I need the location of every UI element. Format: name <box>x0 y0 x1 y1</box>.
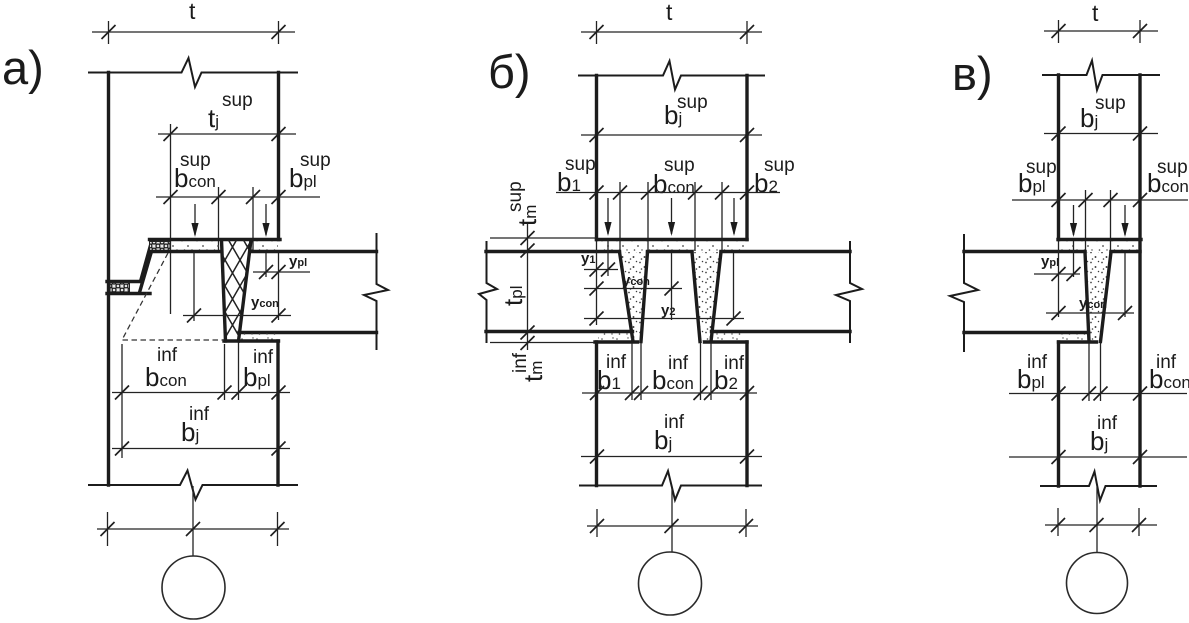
dimension ypl (fig v) line <box>1034 273 1080 275</box>
extension line x=170.5 (fig a) <box>170 124 172 314</box>
svg-text:inf: inf <box>253 347 274 368</box>
svg-text:tpl: tpl <box>498 286 528 306</box>
svg-text:sup: sup <box>764 155 795 176</box>
dimension bpl/bcon inf (fig v) line <box>1009 393 1187 395</box>
dimension bj inf (fig v) line <box>1009 456 1187 458</box>
dimension bj sup (fig b) line <box>581 134 762 136</box>
thickness dim ticks (fig b) <box>521 231 535 350</box>
svg-text:sup: sup <box>1095 93 1126 114</box>
label tpl rotated (fig b) <box>498 286 528 306</box>
mortar shim block B (fig a) <box>110 283 130 293</box>
svg-text:а): а) <box>2 41 44 94</box>
wall top break line (fig v) <box>1042 61 1160 91</box>
dimension t (fig a) extension lines <box>109 21 279 44</box>
wall bottom break line (fig a) <box>88 471 298 500</box>
axis center line (fig v) <box>1096 487 1098 553</box>
svg-text:ypl: ypl <box>289 253 307 270</box>
left slab bottom line (fig v) <box>964 331 1089 334</box>
key left side (fig v) <box>1085 252 1089 342</box>
svg-text:t: t <box>1092 0 1099 26</box>
joint top line (fig a) <box>150 238 281 241</box>
lower wall right edge (fig b) <box>745 342 748 486</box>
dimension t (fig a) line <box>92 31 295 33</box>
dimension b1/bcon/b2 sup (fig b) line <box>556 192 780 194</box>
dimension b1/bcon/b2 inf (fig b) line <box>582 392 757 394</box>
upper wall right edge (fig b) <box>745 76 748 240</box>
left slab break edge (fig b) <box>479 242 497 342</box>
right key left side (fig b) <box>692 252 700 342</box>
dashed diagonal (fig a) <box>123 253 169 339</box>
extension lines key tips (fig b) <box>632 343 711 400</box>
axis dimension (fig a) line <box>97 528 289 530</box>
mortar stipple band top (fig b) <box>598 242 746 252</box>
extension x=194 (fig a) <box>193 252 195 321</box>
upper wall notch ledge (fig a) <box>107 280 141 283</box>
wall bottom break line (fig b) <box>579 471 762 500</box>
left slab top line (fig v) <box>964 250 1085 253</box>
lower wall left edge (fig v) <box>1057 342 1060 486</box>
dimension bpl/bcon sup (fig v) line <box>1012 199 1188 201</box>
dimension bj inf (fig a) line <box>112 448 290 450</box>
dimension tj sup (fig a) ticks <box>164 127 286 141</box>
tongue top line (fig b) <box>648 250 693 253</box>
wall right edge (fig v) <box>1138 75 1141 486</box>
left slab bottom line (fig b) <box>486 330 633 333</box>
svg-text:y2: y2 <box>661 302 675 319</box>
mortar stipple band bottom-right (fig b) <box>712 333 747 341</box>
svg-text:inf: inf <box>606 352 627 373</box>
force arrow right (fig a) <box>265 204 267 235</box>
label tm sup rotated (fig b) <box>505 181 542 226</box>
left slab top line (fig b) <box>486 250 620 253</box>
upper wall right edge (fig a) <box>277 73 280 240</box>
extension lines key corners (fig b) <box>620 182 722 251</box>
dimension t (fig a) ticks <box>102 25 286 39</box>
upper wall left edge (fig b) <box>595 76 598 240</box>
force arrow left (fig v) <box>1073 205 1075 235</box>
svg-text:inf: inf <box>157 345 178 366</box>
svg-text:inf: inf <box>664 412 685 433</box>
right key stipple (fig b) <box>692 252 721 341</box>
svg-text:б): б) <box>488 45 531 98</box>
dimension bcon/bpl sup (fig a) ticks <box>164 190 286 204</box>
concrete key right side (fig a) <box>239 240 252 341</box>
lower wall right edge (fig a) <box>276 341 279 485</box>
axis dimension extensions (fig a) <box>108 512 278 546</box>
upper wall left edge (fig v) <box>1057 75 1060 240</box>
right key right side (fig b) <box>711 252 721 342</box>
svg-text:sup: sup <box>222 90 253 111</box>
joint bottom line (fig v) <box>1059 340 1097 343</box>
svg-text:t: t <box>666 0 673 25</box>
svg-text:sup: sup <box>677 92 708 113</box>
svg-text:ypl: ypl <box>1041 253 1059 270</box>
dimension bcon/bpl inf (fig a) line <box>112 392 290 394</box>
mortar stipple band top-left (fig a) <box>170 242 222 252</box>
svg-text:inf: inf <box>1027 352 1048 373</box>
left key left side (fig b) <box>620 252 634 342</box>
force arrow left (fig a) <box>194 204 196 235</box>
dimension bj sup (fig v) line <box>1044 133 1158 135</box>
axis circle (fig v) <box>1067 553 1128 614</box>
dimension t (fig v) line <box>1044 30 1158 32</box>
dimension tj sup (fig a) line <box>158 133 296 135</box>
upper wall left edge (fig a) <box>107 73 110 486</box>
dimension t (fig b) line <box>581 31 762 33</box>
joint bottom line left (fig b) <box>595 340 638 343</box>
mortar stipple band bottom (fig v) <box>1059 334 1089 341</box>
mortar stipple band bottom (fig a) <box>239 334 278 341</box>
tm inf extension (fig b) <box>490 342 594 344</box>
extension lines key tips (fig v) <box>1089 343 1101 401</box>
dimension bj inf (fig b) line <box>581 456 762 458</box>
dimension y2 (fig b) line <box>584 318 744 320</box>
dimension y1 (fig b) line <box>584 269 618 271</box>
axis dimension extensions (fig v) <box>1058 508 1139 536</box>
force arrow 1 (fig b) <box>607 198 609 234</box>
lower ledge line (fig a) <box>107 292 150 295</box>
svg-text:sup: sup <box>1026 157 1057 178</box>
wall top break line (fig a) <box>88 58 298 87</box>
axis dimension extensions (fig b) <box>597 509 746 537</box>
svg-text:sup: sup <box>505 181 526 212</box>
left slab break edge (fig v) <box>950 235 978 351</box>
extension lines key corners (fig v) <box>1086 190 1111 251</box>
joint bottom line (fig a) <box>224 339 279 342</box>
svg-text:sup: sup <box>1157 157 1188 178</box>
extension lines x=218.5 x=253 (fig a) <box>219 187 254 250</box>
wall bottom break line (fig v) <box>1040 472 1157 501</box>
axis dimension (fig v) line <box>1045 524 1157 526</box>
key stipple (fig v) <box>1085 252 1111 341</box>
extension lines for inf dims (fig a) <box>122 342 239 458</box>
dashed horizontal (fig a) <box>123 339 225 341</box>
axis circle (fig b) <box>639 552 702 615</box>
extension lines y-dims (fig b) <box>597 240 734 325</box>
left slab end slant (fig a) <box>140 253 152 293</box>
axis dimension (fig b) line <box>587 525 758 527</box>
right slab top line (fig b) <box>721 250 850 253</box>
upper wall notch slant (fig a) <box>141 240 153 282</box>
force arrow 3 (fig b) <box>733 198 735 234</box>
mortar stipple band top-right (fig a) <box>251 242 278 252</box>
left slab top line (fig a) <box>150 250 221 253</box>
left key right side (fig b) <box>641 252 648 342</box>
right slab bottom line (fig b) <box>712 330 851 333</box>
svg-text:в): в) <box>952 47 993 100</box>
svg-text:inf: inf <box>189 404 210 425</box>
extension x=278.5 below wall (fig a) <box>278 253 280 320</box>
concrete key crosshatch (fig a) <box>222 240 252 341</box>
svg-text:inf: inf <box>510 352 531 373</box>
svg-text:tj: tj <box>208 103 219 133</box>
svg-text:inf: inf <box>724 353 745 374</box>
key right side (fig v) <box>1101 252 1112 342</box>
right slab bottom line (fig a) <box>239 331 377 334</box>
concrete key left side (fig a) <box>222 240 226 341</box>
axis center line (fig a) <box>192 486 194 556</box>
force arrow right (fig v) <box>1124 205 1126 235</box>
svg-text:sup: sup <box>664 155 695 176</box>
tm sup extension (fig b) <box>490 237 596 239</box>
dimension ycon (fig b) line <box>584 288 682 290</box>
left key stipple (fig b) <box>620 252 648 341</box>
mortar stipple band top (fig v) <box>1059 242 1140 252</box>
lower wall left edge (fig b) <box>595 342 598 486</box>
right slab top line (fig a) <box>251 250 377 253</box>
mortar shim block A (fig a) <box>150 242 171 252</box>
wall bottom line (fig v) <box>1058 238 1141 241</box>
dimension bcon/bpl sup (fig a) line <box>156 196 320 198</box>
axis center line (fig b) <box>671 487 673 552</box>
label tm inf rotated (fig b) <box>510 352 548 382</box>
svg-text:ycon: ycon <box>251 294 279 311</box>
svg-text:inf: inf <box>1097 413 1118 434</box>
mortar stipple band bottom-left (fig b) <box>598 333 632 341</box>
extension x=266 (fig a) <box>265 253 267 277</box>
svg-text:bcon: bcon <box>145 362 187 392</box>
extension lines y-dims (fig v) <box>1059 241 1126 317</box>
wall bottom line (fig b) <box>597 238 748 241</box>
dimension ycon (fig v) line <box>1046 312 1134 314</box>
svg-text:t: t <box>189 0 196 24</box>
svg-text:inf: inf <box>1156 352 1177 373</box>
axis circle (fig a) <box>162 556 225 619</box>
joint bottom line right (fig b) <box>705 340 748 343</box>
right slab break edge (fig b) <box>836 242 862 342</box>
dimension ypl (fig a) line <box>253 271 310 273</box>
svg-text:sup: sup <box>300 150 331 171</box>
svg-text:inf: inf <box>668 353 689 374</box>
force arrow 2 (fig b) <box>671 198 673 234</box>
wall top break line (fig b) <box>578 61 765 90</box>
tongue top line (fig v) <box>1111 250 1140 253</box>
svg-text:sup: sup <box>565 154 596 175</box>
svg-text:sup: sup <box>180 150 211 171</box>
right slab break edge (fig a) <box>364 234 388 349</box>
dimension ycon (fig a) line <box>183 315 291 317</box>
vertical thickness dim line (fig b) <box>527 222 529 350</box>
